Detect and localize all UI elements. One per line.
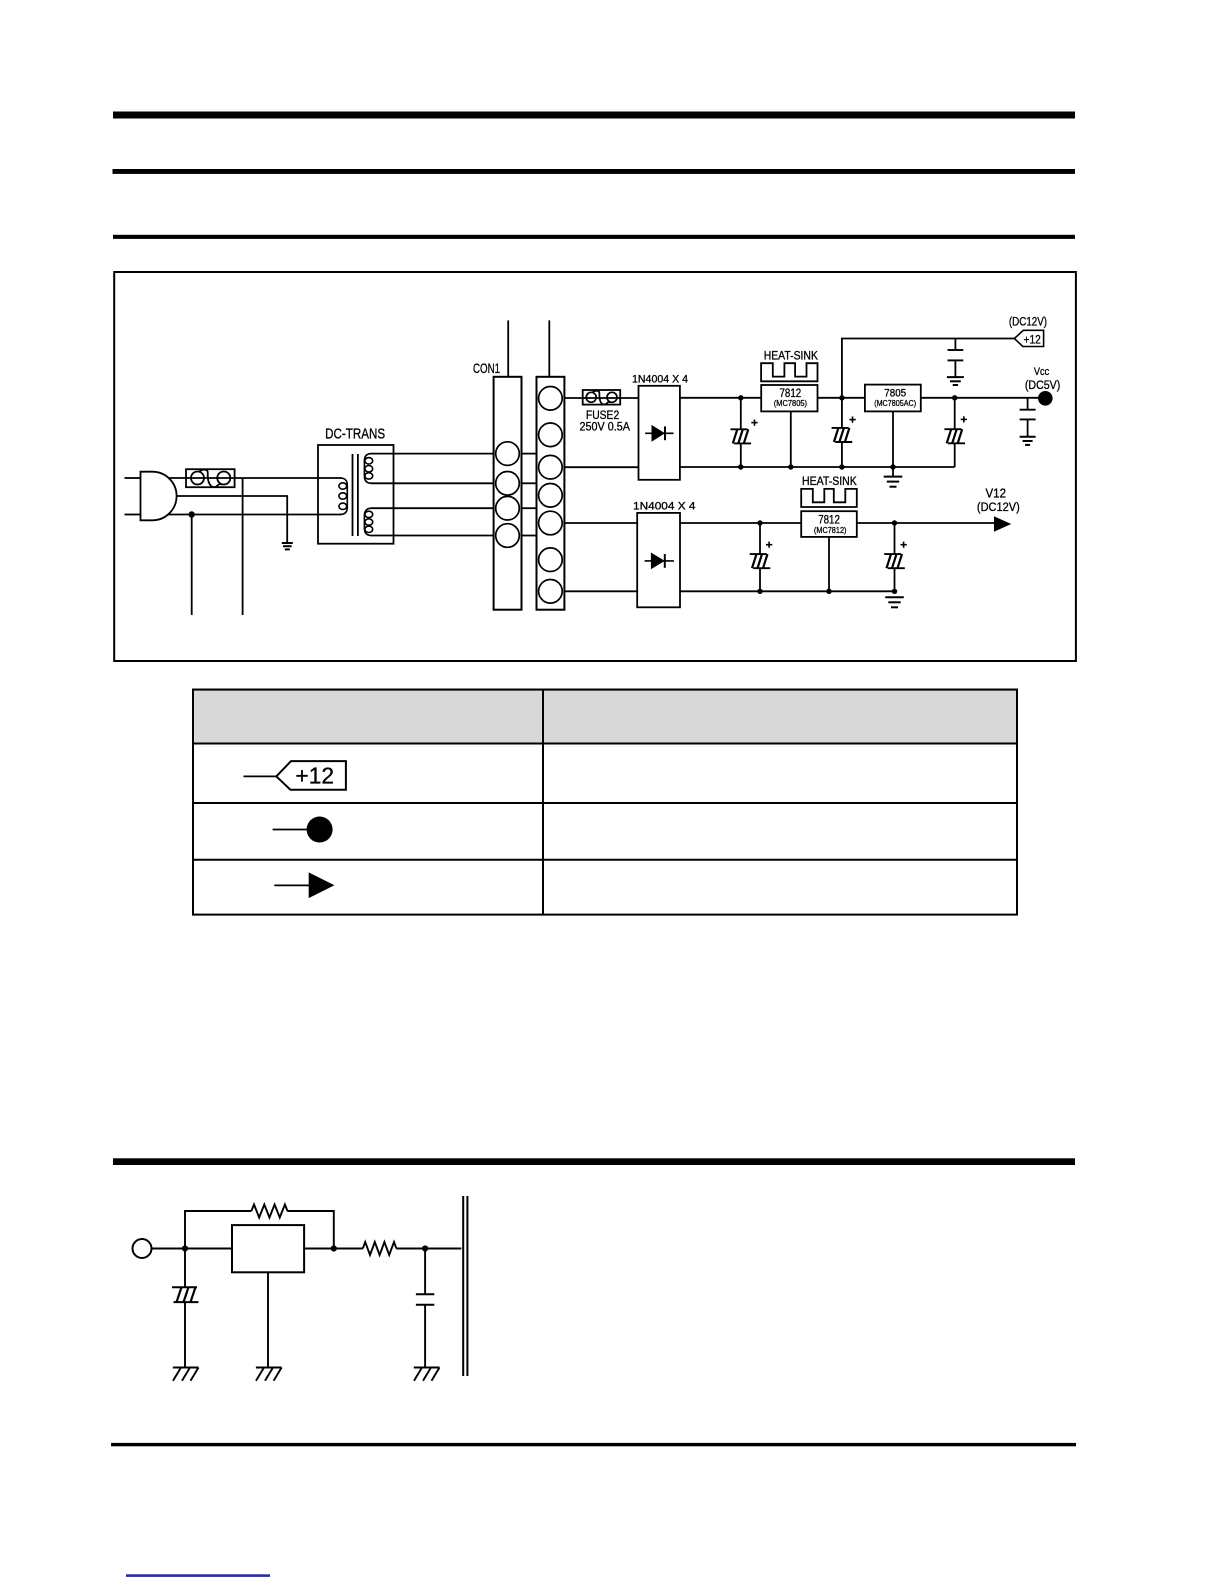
wire feedback right — [287, 1211, 334, 1249]
wire top rail lower circuit — [680, 522, 995, 524]
fuse F1 — [186, 469, 235, 487]
junction dot U2 gnd — [890, 464, 895, 469]
svg-text:+12: +12 — [1024, 332, 1042, 346]
junction dots C2 — [839, 395, 844, 400]
resistor R1 feedback — [251, 1205, 287, 1218]
AC plug P1 — [141, 472, 177, 521]
wire link pin3 — [522, 507, 537, 509]
resistor R2 series — [363, 1242, 397, 1255]
connector CON1 right column — [537, 377, 565, 610]
wire input — [152, 1248, 233, 1250]
transformer secondary winding lower — [364, 508, 372, 535]
capacitor C5 — [884, 523, 907, 591]
flag +12 — [1014, 330, 1043, 346]
wire secondary lead 4 — [371, 535, 494, 537]
wire earth pin — [177, 496, 288, 543]
wire pin7 to bridge2 — [564, 590, 637, 592]
wire U2 ground pin — [892, 411, 894, 476]
wire U3 ground pin — [828, 537, 830, 591]
junction dots C1 — [738, 395, 743, 400]
table row1 +12 flag symbol — [276, 761, 346, 790]
capacitor C2 — [832, 398, 856, 467]
table row2 node dot symbol — [273, 817, 333, 843]
third rule — [113, 235, 1075, 239]
bridge rectifier D2 — [637, 513, 680, 607]
wire pin5 to bridge2 — [564, 522, 637, 524]
wire box output — [304, 1248, 363, 1250]
junction dot output — [331, 1245, 337, 1251]
section divider rule — [113, 1158, 1075, 1165]
capacitor C6 on +12 line — [948, 339, 964, 378]
bottom rule — [111, 1443, 1076, 1446]
svg-text:1N4004 X 4: 1N4004 X 4 — [633, 501, 696, 513]
transformer T1 box — [318, 445, 394, 544]
wire +12 branch — [842, 339, 1015, 398]
wire feedback left — [185, 1211, 251, 1249]
plug prong stub bottom — [125, 514, 141, 516]
capacitor C8 — [172, 1249, 199, 1368]
junction dot cap7 — [422, 1245, 428, 1251]
capacitor C9 — [416, 1249, 434, 1368]
wire stub above connector right — [548, 320, 550, 376]
ground plug earth — [282, 543, 293, 549]
wire vertical drop A — [242, 478, 244, 615]
wire fuse to transformer primary — [235, 477, 342, 479]
transformer primary winding — [339, 478, 347, 515]
wire bottom rail lower circuit — [680, 590, 895, 592]
IC box U4 — [232, 1225, 304, 1272]
svg-text:CON1: CON1 — [473, 361, 500, 376]
ground below C7 — [1020, 437, 1036, 445]
junction dot U1 gnd — [788, 464, 793, 469]
svg-text:HEAT-SINK: HEAT-SINK — [764, 349, 818, 362]
wire secondary lead 1 — [371, 453, 494, 455]
footer blue mark — [126, 1574, 270, 1577]
svg-text:(DC12V): (DC12V) — [1009, 315, 1047, 329]
svg-text:(DC5V): (DC5V) — [1025, 378, 1060, 392]
wire L (line) plug to fuse — [169, 477, 187, 479]
svg-text:HEAT-SINK: HEAT-SINK — [802, 474, 857, 488]
wire link pin2 — [522, 482, 537, 484]
wire top rail upper circuit — [680, 397, 1045, 399]
capacitor C7 below Vcc — [1020, 398, 1036, 437]
ground chassis 3 — [414, 1368, 440, 1381]
ground chassis 2 — [256, 1368, 282, 1381]
heat sink symbol lower — [801, 489, 857, 507]
wire stub above connector left — [507, 320, 509, 376]
svg-text:(MC7812): (MC7812) — [814, 525, 847, 535]
junction dot input — [182, 1245, 188, 1251]
wire N (neutral) plug to transformer — [168, 514, 341, 516]
capacitor C3 — [944, 398, 967, 467]
second rule — [113, 169, 1076, 174]
wire box ground pin — [267, 1272, 269, 1367]
wire pin3 to bridge — [564, 466, 638, 468]
heat sink symbol upper — [761, 363, 817, 381]
transformer secondary winding upper — [364, 454, 372, 484]
wire secondary lead 3 — [371, 507, 494, 509]
schematic frame — [114, 272, 1076, 661]
ground below U2 — [884, 477, 903, 487]
connector CON1 left column — [494, 377, 522, 610]
svg-text:Vcc: Vcc — [1034, 366, 1050, 378]
node V12 arrow — [994, 516, 1011, 531]
regulator U3 7812 — [801, 511, 857, 537]
wire to CRT — [396, 1248, 461, 1250]
regulator U2 7805 — [865, 385, 921, 412]
fuse FUSE2 — [583, 390, 621, 405]
wire secondary lead 2 — [371, 482, 494, 484]
junction dots C5 — [892, 520, 897, 525]
wire FUSE2 to bridge — [620, 397, 638, 399]
svg-text:+12: +12 — [295, 763, 334, 789]
svg-text:(MC7805): (MC7805) — [774, 398, 807, 408]
junction dots C4 — [757, 520, 762, 525]
wire link pin4 — [522, 535, 537, 537]
node Vcc dot — [1038, 391, 1053, 406]
ground below lower rail — [885, 597, 904, 607]
svg-text:(MC7805AC): (MC7805AC) — [874, 398, 916, 408]
transformer core — [352, 454, 354, 536]
plug prong stub top — [125, 477, 141, 479]
wire U1 ground pin — [790, 411, 792, 467]
capacitor C4 — [750, 523, 773, 591]
wire to FUSE2 — [564, 397, 582, 399]
top rule thick — [113, 112, 1075, 119]
table row1 wire — [243, 775, 277, 777]
bridge rectifier D1 — [639, 386, 680, 480]
wire bottom rail upper circuit — [680, 466, 955, 468]
table legend — [193, 690, 1017, 915]
ground below C6 — [947, 377, 964, 385]
capacitor C1 — [731, 398, 758, 467]
wire vertical drop B — [191, 515, 193, 616]
ground chassis 1 — [173, 1368, 199, 1381]
junction dot U3 gnd — [826, 589, 831, 594]
svg-text:250V 0.5A: 250V 0.5A — [580, 420, 631, 434]
wire link pin1 — [522, 453, 537, 455]
svg-text:(DC12V): (DC12V) — [977, 500, 1020, 514]
junction dot C3 — [952, 395, 957, 400]
junction dot neutral — [189, 511, 195, 517]
double line terminal — [462, 1196, 464, 1376]
svg-text:DC-TRANS: DC-TRANS — [325, 426, 385, 442]
table row3 arrow symbol — [274, 872, 334, 898]
regulator U1 7812 — [761, 385, 817, 411]
svg-text:1N4004 X 4: 1N4004 X 4 — [632, 374, 688, 386]
svg-text:V12: V12 — [986, 487, 1007, 501]
input node circle — [133, 1239, 152, 1258]
